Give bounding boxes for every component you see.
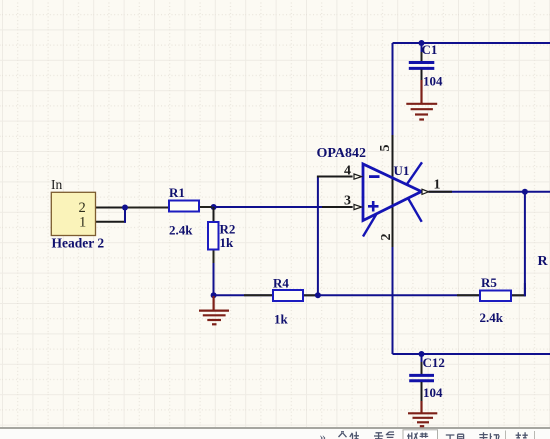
wire R4 to feedback node bbox=[303, 294, 318, 296]
pin 1 arrowhead bbox=[422, 189, 429, 194]
svg-text:R: R bbox=[538, 254, 549, 269]
C1 top pin stub (black) bbox=[421, 52, 423, 61]
svg-text:104: 104 bbox=[423, 74, 443, 89]
svg-text:R4: R4 bbox=[273, 275, 289, 290]
menu item 文件 (glyph tops) bbox=[339, 432, 360, 439]
svg-text:2.4k: 2.4k bbox=[480, 310, 504, 325]
svg-text:C12: C12 bbox=[423, 355, 445, 370]
connector J? Header 2 body bbox=[51, 192, 95, 235]
wire pin1 up to junction bbox=[124, 208, 126, 223]
capacitor C12 lower lead bbox=[421, 382, 423, 403]
op-amp plus sign bbox=[368, 201, 379, 212]
svg-text:R5: R5 bbox=[481, 275, 497, 290]
capacitor C12 plates bbox=[409, 375, 434, 380]
menu item 查看 (glyph tops) bbox=[374, 432, 394, 439]
node C1/top rail junction bbox=[419, 40, 425, 46]
wire top supply rail bbox=[393, 42, 550, 44]
wire bottom supply rail bbox=[393, 353, 550, 355]
resistor R2 body bbox=[208, 222, 219, 250]
node header junction bbox=[122, 205, 128, 211]
R4 pin stubs (black) bbox=[244, 294, 273, 296]
wire vertical V+ to V- (pin 5 / pin 2 net) bbox=[392, 43, 394, 354]
resistor R4 body bbox=[273, 290, 303, 301]
wire R2 bottom to ground node bbox=[213, 250, 215, 297]
op-amp diagonal stroke upper right bbox=[407, 162, 423, 185]
svg-text:3: 3 bbox=[344, 194, 351, 209]
svg-text:Header 2: Header 2 bbox=[52, 236, 105, 251]
pin 5 / pin 2 stubs (black) bbox=[392, 135, 394, 247]
capacitor C1 lower lead bbox=[421, 70, 423, 82]
svg-text:In: In bbox=[51, 177, 62, 192]
menu item 工具 (glyph tops) bbox=[446, 434, 464, 439]
pin stub R2 top (black) bbox=[213, 207, 215, 222]
svg-text:1k: 1k bbox=[220, 235, 235, 250]
menu highlighted button around 收藏 bbox=[403, 430, 438, 439]
node output junction bbox=[522, 189, 528, 195]
menu item 签 (glyph top) bbox=[516, 432, 528, 438]
C12 top pin stub (black) bbox=[421, 362, 423, 374]
wire C12 stub bbox=[421, 354, 423, 374]
svg-text:2.4k: 2.4k bbox=[169, 223, 193, 238]
op-amp minus sign bbox=[369, 175, 380, 178]
wire R5 to output corner bbox=[511, 294, 525, 296]
R5 pin stubs (black) bbox=[457, 294, 480, 296]
header pin 1 stub bbox=[96, 221, 126, 223]
svg-text:5: 5 bbox=[378, 145, 393, 152]
R1 right pin stub (black) bbox=[199, 206, 212, 208]
pin 4 arrowhead bbox=[354, 174, 362, 179]
wire R1 to pin 3 of U1 bbox=[199, 206, 353, 208]
node feedback junction bbox=[315, 292, 321, 298]
resistor R5 body bbox=[480, 291, 511, 302]
pin 3 stub (black) bbox=[322, 206, 353, 208]
node R2/R4/gnd junction bbox=[211, 292, 217, 298]
svg-text:104: 104 bbox=[423, 385, 443, 400]
pin 3 arrowhead bbox=[354, 204, 362, 209]
wire to pin 4 of U1 bbox=[317, 176, 353, 178]
svg-text:1: 1 bbox=[79, 214, 86, 230]
wire feedback node to R5 bbox=[318, 294, 480, 296]
R2 bottom pin stub (black) bbox=[213, 250, 215, 264]
R1 left pin stub (black) bbox=[127, 207, 169, 209]
menu item 帮助 (glyph tops) bbox=[479, 432, 499, 439]
wire gnd node to R4 bbox=[214, 294, 273, 296]
node R1/R2 junction bbox=[211, 204, 217, 210]
svg-text:R1: R1 bbox=[169, 185, 185, 200]
svg-text:1k: 1k bbox=[274, 312, 289, 327]
wire junction to R1 bbox=[124, 207, 169, 209]
capacitor C1 plates bbox=[409, 63, 435, 69]
ground under R2 bbox=[199, 296, 229, 324]
op-amp diagonal stroke lower right bbox=[409, 199, 422, 222]
menu separator right bbox=[534, 431, 536, 439]
ground under C1 bbox=[406, 80, 437, 120]
svg-text:1: 1 bbox=[434, 178, 441, 193]
pin 1 stub (black) bbox=[429, 191, 453, 193]
svg-text:4: 4 bbox=[344, 164, 351, 179]
header pin 2 stub bbox=[96, 207, 126, 209]
svg-text:U1: U1 bbox=[394, 163, 410, 178]
menu separator bbox=[505, 431, 507, 439]
node C12/bottom rail junction bbox=[419, 351, 425, 357]
wire feedback vertical to pin 4 bbox=[317, 177, 319, 297]
menu item 收藏 (glyph tops) bbox=[407, 432, 428, 439]
op-amp diagonal stroke lower left bbox=[363, 214, 376, 236]
op-amp U1 triangle bbox=[363, 164, 421, 221]
wire output corner vertical bbox=[524, 192, 526, 296]
resistor R1 body bbox=[169, 201, 199, 212]
svg-text:2: 2 bbox=[379, 234, 394, 241]
svg-text:»: » bbox=[320, 429, 327, 439]
wire output net bbox=[429, 191, 550, 193]
ground under C12 bbox=[408, 401, 437, 426]
wire C1 stub bbox=[421, 43, 423, 61]
svg-text:OPA842: OPA842 bbox=[317, 146, 367, 161]
svg-text:C1: C1 bbox=[422, 42, 438, 57]
